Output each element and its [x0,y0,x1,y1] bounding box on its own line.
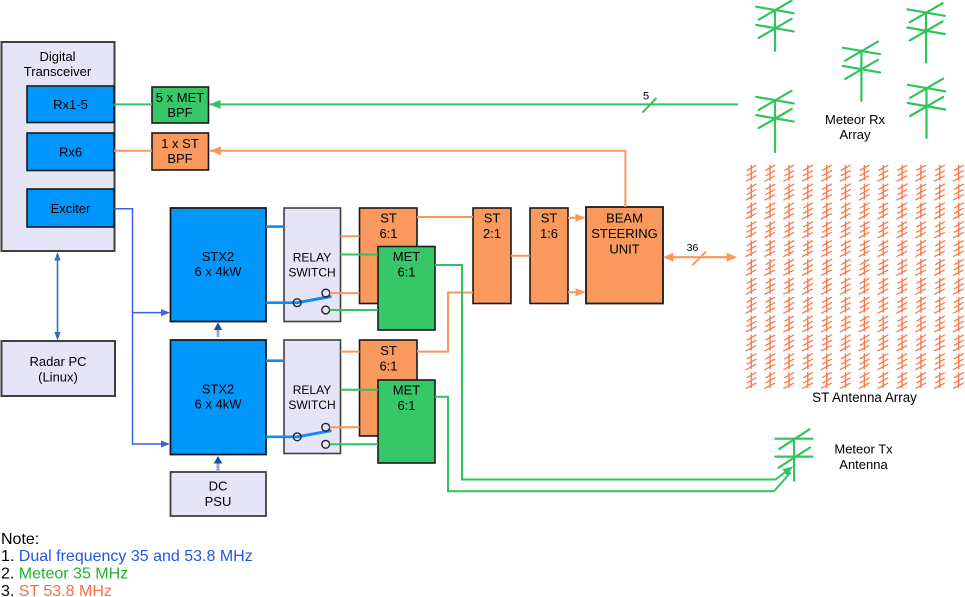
svg-text:6 x 4kW: 6 x 4kW [195,397,243,412]
svg-text:STEERING: STEERING [591,226,657,241]
wire: ST 6:1 1 to ST 2:1 (orange) [417,216,473,218]
box: STX2 transmitter 1 [171,208,267,322]
svg-text:BEAM: BEAM [606,211,643,226]
wire: ST 1:6 to beam steering unit lower (orange arrow) [568,291,584,293]
svg-text:STX2: STX2 [202,382,235,397]
svg-text:ST Antenna Array: ST Antenna Array [812,390,917,405]
wire: STX2 2 lower output to relay switch 2 pole (bright blue) [266,435,297,438]
Meteor Rx array antenna 1 [756,1,793,51]
svg-text:ST: ST [380,343,397,358]
bus slash mark, 36 lines [692,252,706,266]
svg-text:6:1: 6:1 [397,398,415,413]
wire: ST 1:6 to beam steering unit upper (orange arrow) [568,217,584,219]
svg-text:UNIT: UNIT [609,242,639,257]
svg-text:6:1: 6:1 [397,265,415,280]
box: Rx6 [27,133,114,171]
svg-text:6 x 4kW: 6 x 4kW [195,264,243,279]
svg-text:Note:: Note: [1,531,39,548]
Meteor Rx array antenna 3 [843,42,880,101]
wire: relay 2 to ST 6:1 2 (orange stub) [341,351,360,353]
svg-text:2. Meteor 35 MHz: 2. Meteor 35 MHz [1,566,128,583]
svg-text:1:6: 1:6 [540,226,558,241]
box: Digital Transceiver enclosure [2,42,115,251]
box: ST 2:1 combiner [473,208,511,304]
svg-text:Antenna: Antenna [839,457,888,472]
svg-text:Rx6: Rx6 [59,145,82,160]
wire: Digital Transceiver to Radar PC (double arrow) [57,254,59,339]
svg-text:Transceiver: Transceiver [24,64,92,79]
box: Exciter [27,189,114,227]
svg-text:6:1: 6:1 [379,359,397,374]
svg-text:(Linux): (Linux) [38,370,78,385]
DC PSU to STX2 power arrow [217,462,220,472]
svg-text:ST: ST [484,211,501,226]
Meteor Rx array antenna 4 [756,91,793,152]
relay 1 pole MET [322,306,330,314]
svg-text:BPF: BPF [167,105,192,120]
Meteor Rx array antenna 5 [908,79,945,138]
svg-text:5 x MET: 5 x MET [156,90,204,105]
svg-text:ST: ST [380,211,397,226]
wire: relay 1 to MET 6:1 1 (green stub) [341,254,379,256]
relay 2 pole common [293,433,301,441]
relay 2 switch lever [297,431,330,437]
relay 2 pole MET [322,440,330,448]
wire: STX2 1 lower output to relay switch 1 pole (bright blue) [266,301,297,304]
wire: relay 2 pole to ST 6:1 2 (orange) [330,426,360,428]
box: MET 6:1 combiner 1 [378,247,435,331]
box: ST 1:6 splitter [530,208,568,304]
svg-text:PSU: PSU [205,494,232,509]
box: Rx1-5 [27,86,114,123]
svg-text:SWITCH: SWITCH [288,266,335,280]
relay 2 pole ST [322,423,330,431]
box: 5 x MET BPF [152,87,209,123]
wire: ST 2:1 to ST 1:6 (orange) [511,255,530,257]
wire: Exciter to STX2 transmitters (royal blue with arrows) [114,209,169,444]
Meteor Rx array antenna 2 [907,3,944,62]
box: Radar PC (Linux) [2,341,116,396]
relay 1 switch lever [297,297,330,303]
wire: MET 6:1 1 to Meteor Tx antenna (green) [435,265,790,480]
Meteor Tx antenna [775,429,812,480]
box: relay switch 2 [284,340,341,454]
svg-text:Meteor Tx: Meteor Tx [834,442,893,457]
wire: relay 1 pole to MET 6:1 1 (green) [330,309,378,311]
svg-text:MET: MET [393,383,421,398]
svg-text:DC: DC [209,479,228,494]
inter-STX2 power arrow [217,328,220,337]
svg-text:6:1: 6:1 [379,226,397,241]
svg-text:36: 36 [687,242,699,254]
box: DC PSU [171,472,267,516]
box: MET 6:1 combiner 2 [378,380,435,463]
svg-text:Meteor Rx: Meteor Rx [825,112,885,127]
wire: MET 6:1 2 to Meteor Tx antenna (green) [435,397,791,492]
svg-text:Digital: Digital [39,49,75,64]
box: STX2 transmitter 2 [171,340,267,455]
wire: ST 6:1 2 to ST 2:1 (orange) [417,293,473,352]
wire: relay 2 to MET 6:1 2 (green stub) [341,389,379,391]
svg-text:BPF: BPF [167,151,192,166]
svg-text:RELAY: RELAY [293,251,331,265]
wire: Meteor Rx array to MET BPF (green, arrow into BPF) [209,103,738,105]
box: 1 x ST BPF [152,133,209,170]
svg-text:Radar PC: Radar PC [29,354,86,369]
wire: beam steering unit to ST BPF (orange, arrow into BPF) [210,151,625,207]
box: relay switch 1 [284,208,341,322]
wire: Rx6 to ST BPF (orange) [114,150,152,152]
svg-text:2:1: 2:1 [483,226,501,241]
relay 1 pole common [293,299,301,307]
wire: relay 1 pole to ST 6:1 1 (orange) [330,292,360,294]
wire: STX2 2 upper output to relay switch 2 (bright blue) [266,359,284,362]
box: beam steering unit [586,207,663,304]
box: ST 6:1 combiner 1 [360,208,418,304]
wire: beam steering unit to ST antenna array (orange double arrow) [672,256,728,258]
wire: Rx1-5 to MET BPF (green) [114,103,152,105]
relay 1 pole ST [322,289,330,297]
wire: STX2 1 upper output to relay switch 1 (bright blue) [266,225,284,228]
svg-text:1 x ST: 1 x ST [161,136,199,151]
svg-text:3. ST 53.8 MHz: 3. ST 53.8 MHz [1,583,112,597]
svg-text:ST: ST [541,211,558,226]
wire: relay 2 pole to MET 6:1 2 (green) [330,443,378,445]
wire: relay 1 to ST 6:1 1 (orange stub) [341,235,360,237]
svg-text:5: 5 [643,91,649,103]
svg-text:STX2: STX2 [202,249,235,264]
svg-text:RELAY: RELAY [293,383,331,397]
bus slash mark, 5 lines [643,98,657,113]
svg-text:SWITCH: SWITCH [288,398,335,412]
svg-text:MET: MET [393,249,421,264]
svg-text:Rx1-5: Rx1-5 [53,97,88,112]
svg-text:Array: Array [839,127,871,142]
svg-text:Exciter: Exciter [51,201,91,216]
box: ST 6:1 combiner 2 [360,340,418,436]
svg-text:1. Dual frequency 35 and 53.8: 1. Dual frequency 35 and 53.8 MHz [1,548,253,565]
